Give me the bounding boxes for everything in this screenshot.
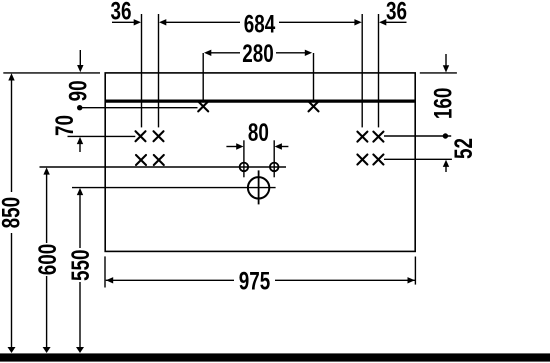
svg-text:280: 280 [242, 40, 274, 68]
svg-text:850: 850 [0, 197, 26, 229]
svg-text:52: 52 [450, 138, 478, 159]
svg-text:36: 36 [111, 0, 132, 25]
svg-text:70: 70 [51, 115, 79, 136]
svg-text:160: 160 [430, 88, 458, 120]
svg-text:90: 90 [64, 80, 92, 101]
svg-text:36: 36 [386, 0, 407, 25]
svg-text:684: 684 [244, 10, 276, 38]
svg-text:550: 550 [67, 249, 95, 281]
svg-text:80: 80 [248, 119, 269, 147]
svg-text:975: 975 [239, 267, 271, 295]
svg-text:600: 600 [34, 244, 62, 276]
